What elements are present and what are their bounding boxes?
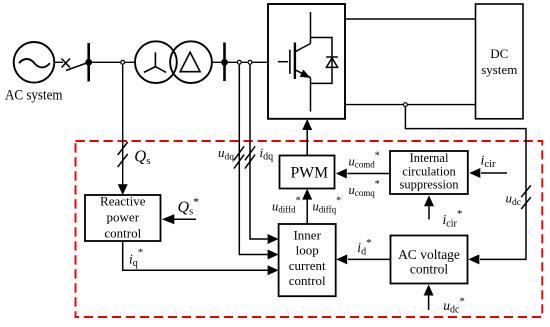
svg-text:circulation: circulation [402,164,456,178]
diode D1 branch [311,38,333,84]
junction node on busbar 2 [221,59,228,66]
arrow PWM to converter [306,129,308,156]
arrow i_d* from AC voltage control to Inner loop [348,258,391,260]
arrow u_diff from Inner loop to PWM [306,198,308,224]
wire Qs measurement [122,65,124,186]
hash marks i_dq [245,146,255,168]
wire iq* from Reactive power control to Inner loop [123,241,268,270]
AC source G1 [14,42,55,83]
diode D1 [326,57,338,67]
arrow u_com from Internal circulation suppression to PWM [348,173,391,175]
junction node on busbar 1 [85,59,92,66]
breaker switch S1 [62,59,89,71]
svg-text:loop: loop [296,243,319,258]
DC system box [476,4,524,119]
IGBT emitter arrow [300,70,311,78]
busbar 2 [223,43,226,82]
node tap (open) for i_dq [248,60,252,64]
node tap (open) for u_dq [237,60,241,64]
wire transformer to converter [212,61,268,63]
PWM box [280,156,335,189]
Internal circulation suppression box [390,151,468,194]
hash marks u_dq [234,146,244,168]
svg-text:AC system: AC system [5,88,63,104]
svg-text:control: control [410,262,448,277]
svg-text:DC: DC [490,46,508,61]
transformer delta winding symbol [180,52,200,71]
IGBT Q1 [278,12,311,112]
arrow into Reactive power control [118,184,128,195]
transformer Y winding symbol [144,52,166,72]
converter (VSC) box [268,4,345,119]
transformer T1 [135,41,212,83]
svg-text:suppression: suppression [399,178,459,192]
hash marks Qs [118,142,128,167]
DC wire top [345,18,476,20]
svg-text:Internal: Internal [410,151,449,165]
busbar 1 [87,43,90,82]
svg-text:AC voltage: AC voltage [398,247,460,262]
svg-text:control: control [289,273,326,288]
svg-text:system: system [481,62,517,77]
AC voltage control box [391,236,468,284]
svg-text:Reactive: Reactive [100,194,146,209]
i_cir input arrow [481,172,507,174]
u_dc* reference arrow [428,295,430,311]
Inner loop current control box [279,224,336,296]
Reactive power control box [85,195,161,241]
svg-text:power: power [107,210,140,225]
wire u_dq measurement [239,65,267,255]
wire stub from source [54,61,63,63]
DC wire bottom [345,104,476,106]
Qs* reference input arrow [174,218,197,220]
i_cir* reference arrow [428,206,430,220]
svg-text:current: current [289,258,326,273]
node tap (open) for Qs measurement [121,60,125,64]
control system boundary (red dashed) [76,141,543,317]
hash marks u_dc [521,185,531,209]
node tap (open) for u_dc [404,103,408,107]
svg-text:control: control [104,226,141,241]
wire u_dc measurement route [405,107,526,259]
svg-text:PWM: PWM [291,165,329,182]
svg-text:Inner: Inner [293,228,321,243]
wire busbar1 to transformer [89,61,135,63]
wire i_dq measurement [250,65,268,239]
